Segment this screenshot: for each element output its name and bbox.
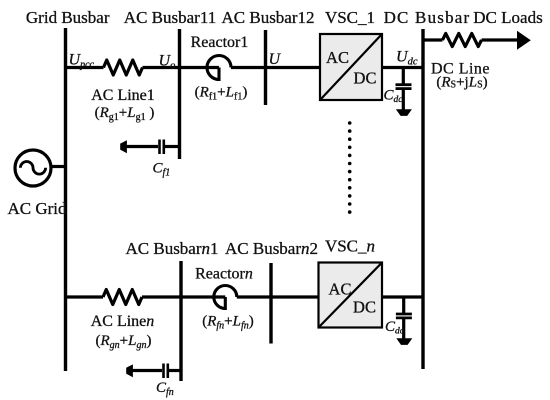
- svg-text:Grid Busbar: Grid Busbar: [26, 8, 110, 27]
- wire and arrow to DC Loads: [482, 31, 531, 50]
- svg-text:Reactorn: Reactorn: [195, 266, 253, 283]
- svg-text:AC Busbar11: AC Busbar11: [124, 8, 216, 27]
- arrow Cfn: [126, 364, 133, 377]
- ground (top): [396, 109, 412, 116]
- arrow Cf1: [120, 140, 127, 153]
- svg-text:AC Busbarn2: AC Busbarn2: [225, 239, 318, 258]
- dotted line: [348, 121, 352, 214]
- capacitor Cdc (top): [396, 68, 412, 110]
- AC busbar11: [178, 29, 181, 159]
- wire reactor to VSC_n: [237, 295, 319, 298]
- resistor AC Line n: [103, 290, 142, 305]
- capacitor Cfn: [164, 364, 182, 379]
- svg-text:Reactor1: Reactor1: [191, 34, 249, 51]
- svg-text:DC Loads: DC Loads: [473, 8, 542, 27]
- svg-text:DC: DC: [354, 69, 377, 88]
- wire grid busbar to resistor (top): [66, 66, 104, 69]
- capacitor Cf1 branch wire: [126, 145, 158, 148]
- AC busbar n1: [179, 261, 182, 381]
- wire VSC_1 to DC busbar: [382, 66, 423, 69]
- svg-text:AC Linen: AC Linen: [91, 313, 155, 330]
- VSC U1 box: [320, 34, 382, 100]
- svg-text:AC: AC: [326, 48, 349, 67]
- svg-text:(Rg1+Lg1 ): (Rg1+Lg1 ): [95, 105, 155, 123]
- svg-text:VSC_n: VSC_n: [325, 237, 375, 256]
- capacitor Cdc (bottom): [396, 297, 412, 339]
- VSC Un box: [319, 263, 383, 328]
- svg-text:U: U: [269, 51, 282, 68]
- reactor Reactor1: [207, 56, 231, 82]
- wire resistor to reactor (bottom): [142, 295, 225, 298]
- svg-text:AC: AC: [329, 279, 352, 298]
- grid busbar: [64, 28, 67, 371]
- capacitor Cfn branch wire: [131, 369, 162, 372]
- svg-text:DC Busbar: DC Busbar: [384, 8, 471, 27]
- svg-text:AC Grid: AC Grid: [7, 199, 67, 218]
- wire grid busbar to resistor (bottom): [66, 295, 104, 298]
- wire VSC_n to DC busbar: [382, 295, 423, 298]
- reactor Reactor n: [214, 286, 237, 311]
- resistor DC Line: [443, 33, 482, 46]
- svg-text:AC Busbarn1: AC Busbarn1: [125, 239, 218, 258]
- DC busbar: [421, 29, 424, 369]
- svg-text:AC Line1: AC Line1: [91, 87, 155, 104]
- AC busbar n2: [269, 263, 272, 344]
- svg-text:DC: DC: [353, 298, 376, 317]
- ground (bottom): [396, 338, 412, 345]
- resistor AC Line1: [104, 60, 143, 75]
- svg-text:AC Busbar12: AC Busbar12: [221, 8, 314, 27]
- wire DC busbar to DC line resistor: [423, 38, 443, 41]
- AC busbar12: [264, 30, 267, 105]
- AC source G1: [15, 150, 66, 186]
- wire reactor to VSC_1: [231, 66, 320, 69]
- capacitor Cf1: [160, 140, 180, 155]
- wire resistor to reactor (top): [143, 66, 220, 69]
- svg-text:VSC_1: VSC_1: [325, 8, 375, 27]
